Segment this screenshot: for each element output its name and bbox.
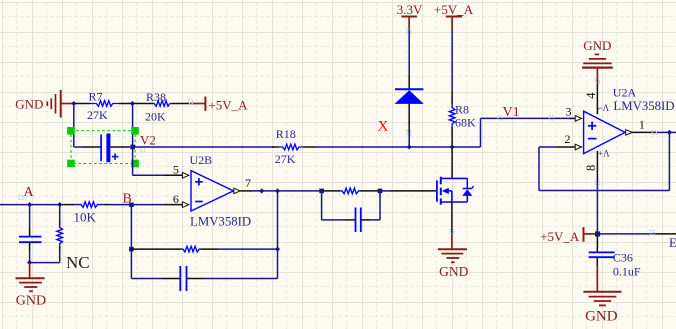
net label V2 (140, 132, 156, 151)
resistor R38 (132, 90, 191, 123)
resistor R8 (449, 30, 476, 147)
wire left edge to node A (0, 204, 30, 206)
capacitor U2B feedback (131, 266, 277, 291)
svg-text:27K: 27K (87, 108, 108, 122)
ground GND below C36 (583, 266, 621, 324)
wire node B to pin6 (131, 204, 163, 206)
capacitor at node A (19, 205, 42, 263)
capacitor C36 (589, 236, 641, 279)
svg-text:R8: R8 (455, 102, 469, 116)
wire feedback right vertical (277, 191, 279, 279)
net label A (19, 185, 35, 200)
svg-text:0.1uF: 0.1uF (613, 265, 641, 279)
node junction output 1 (259, 188, 264, 193)
node B junction (129, 203, 134, 208)
svg-text:3: 3 (566, 104, 572, 118)
wire U2A pin8 down to +5V_A node (596, 183, 598, 234)
svg-text:V1: V1 (503, 105, 520, 120)
node junction feedback left (129, 247, 134, 252)
power +5V_A top-left (189, 97, 249, 113)
resistor 10K (60, 202, 110, 225)
node junction feedback right (275, 247, 280, 252)
svg-text:LMV358ID: LMV358ID (190, 215, 251, 229)
node junction cap/NC bottom (27, 260, 32, 265)
svg-text:+5V_A: +5V_A (208, 98, 248, 113)
net label B (123, 191, 132, 206)
power +5V_A top (434, 2, 474, 30)
ground GND at node A (16, 263, 47, 309)
ground GND top-left power port (15, 90, 72, 118)
wire R7 junction down to C(V2) (73, 104, 75, 148)
node junction R7 left (71, 101, 76, 106)
node junction +5V_A/C36 (595, 231, 600, 236)
diode D (to 3.3V) (395, 31, 424, 148)
wire node A to 10K (30, 204, 60, 206)
svg-text:X: X (378, 118, 389, 134)
svg-text:27K: 27K (275, 152, 296, 166)
wire RC2 to MOSFET gate (380, 190, 437, 192)
net marker X (red) (378, 118, 389, 134)
wire U2A feedback loop (539, 132, 669, 190)
node R8/drain junction (450, 144, 455, 149)
svg-text:GND: GND (439, 264, 468, 279)
wire V2 node down to U2B pin5 (133, 147, 164, 175)
node junction U2A output (667, 130, 672, 135)
svg-text:E: E (669, 235, 676, 250)
svg-text:20K: 20K (145, 109, 166, 123)
wire R38 junction down to V2 node (132, 104, 134, 148)
node X junction (407, 144, 412, 149)
wire node B down (feedback left) (130, 205, 132, 279)
node junction at NC resistor top (57, 202, 62, 207)
resistor NC (vertical) (30, 205, 90, 272)
svg-text:68K: 68K (455, 116, 476, 130)
wire U2B output (252, 190, 322, 192)
ground GND power port above U2A (582, 38, 613, 84)
svg-text:GND: GND (15, 97, 43, 112)
node junction output 2 (feedback tap) (275, 188, 280, 193)
svg-text:+Λ: +Λ (598, 149, 610, 159)
node V2 junction (130, 145, 135, 150)
svg-text:2: 2 (565, 132, 571, 146)
selection handles + dashed box around capacitor (67, 127, 139, 167)
port label E (669, 235, 676, 250)
svg-text:10K: 10K (74, 209, 97, 224)
wire node X to R8 junction (409, 146, 452, 148)
svg-text:R38: R38 (146, 90, 166, 104)
resistor U2B feedback (131, 246, 277, 252)
transistor Q MOSFET w/ body diode (437, 147, 474, 233)
power 3.3V (397, 2, 423, 134)
svg-text:5: 5 (173, 162, 179, 176)
resistor RC2 (parallel R) (322, 188, 380, 194)
svg-text:LMV358ID: LMV358ID (613, 99, 674, 113)
svg-text:4: 4 (584, 92, 598, 99)
wire R18 to node X (316, 146, 409, 148)
wire to V1 corner (452, 118, 572, 147)
svg-text:+5V_A: +5V_A (434, 2, 474, 17)
svg-text:R7: R7 (89, 89, 103, 103)
node A junction (27, 202, 32, 207)
svg-text:GND: GND (585, 308, 618, 324)
wire V2 node to R18 (133, 146, 274, 148)
svg-text:7: 7 (245, 176, 251, 190)
svg-text:C36: C36 (613, 251, 633, 265)
resistor R18 (272, 127, 316, 166)
svg-text:3.3V: 3.3V (397, 2, 423, 17)
svg-text:8: 8 (584, 165, 598, 171)
svg-text:NC: NC (66, 253, 90, 272)
op-amp U2B (163, 153, 252, 229)
node junction R7/R38 (130, 101, 135, 106)
svg-text:GND: GND (583, 38, 611, 53)
power +5V_A bottom (540, 227, 597, 244)
ground GND below MOSFET (438, 230, 469, 279)
svg-text:R18: R18 (276, 127, 296, 141)
wire to E (right edge) (598, 231, 676, 235)
svg-text:A: A (24, 185, 35, 200)
svg-text:GND: GND (16, 294, 46, 309)
svg-text:U2B: U2B (190, 153, 213, 167)
svg-text:V2: V2 (140, 132, 156, 147)
capacitor RC2 (parallel C) (322, 191, 380, 232)
resistor R7 (74, 89, 133, 122)
net label V1 (498, 105, 554, 120)
svg-text:1: 1 (639, 117, 645, 131)
svg-text:U2A: U2A (613, 85, 637, 99)
wire 10K to node B (110, 204, 131, 206)
capacitor electrolytic (selected, V2 node) (74, 134, 130, 163)
op-amp U2A (556, 84, 675, 184)
svg-text:6: 6 (173, 192, 179, 206)
wire U2A output to right edge (669, 131, 676, 133)
svg-text:⌐Λ: ⌐Λ (598, 103, 610, 113)
node junction RC2 right (378, 189, 383, 194)
node junction RC2 left (319, 189, 324, 194)
svg-text:+5V_A: +5V_A (540, 229, 580, 244)
